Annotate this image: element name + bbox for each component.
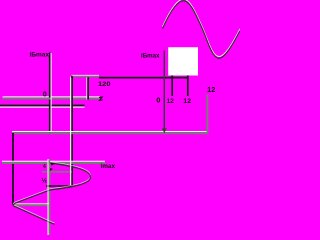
svg-text:12: 12 [167,98,175,105]
svg-text:imax: imax [101,164,116,170]
svg-text:0: 0 [156,95,160,104]
svg-text:120: 120 [98,81,111,88]
svg-text:iБmax: iБmax [141,54,160,60]
svg-text:½: ½ [42,176,48,184]
svg-text:0: 0 [43,91,47,98]
svg-text:iБmax: iБmax [30,53,50,59]
svg-text:12: 12 [183,98,191,105]
svg-text:12: 12 [207,87,215,94]
